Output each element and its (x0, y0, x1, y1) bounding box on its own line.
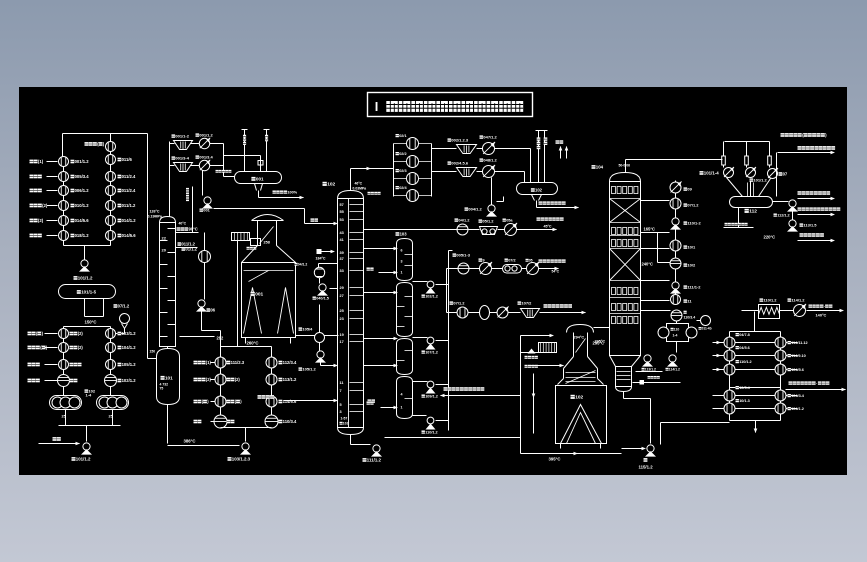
svg-text:001/3-4: 001/3-4 (175, 156, 189, 161)
svg-text:25: 25 (62, 415, 66, 419)
svg-text:114/1.2: 114/1.2 (791, 298, 805, 303)
svg-text:6: 6 (401, 249, 403, 253)
svg-text:107/2: 107/2 (521, 301, 532, 306)
svg-text:113/1.5: 113/1.5 (803, 223, 817, 228)
svg-text:3: 3 (401, 260, 403, 264)
svg-text:0.03MPa: 0.03MPa (353, 187, 367, 191)
svg-text:1-57: 1-57 (341, 417, 348, 421)
svg-text:111/1.2: 111/1.2 (367, 458, 382, 463)
svg-text:07: 07 (783, 172, 788, 177)
svg-text:07/1.2: 07/1.2 (118, 304, 130, 309)
svg-text:10/1: 10/1 (687, 245, 696, 250)
svg-text:102: 102 (575, 395, 583, 401)
svg-text:105/1.2: 105/1.2 (122, 362, 137, 367)
svg-text:110: 110 (674, 328, 680, 332)
svg-text:004/1.2: 004/1.2 (468, 207, 482, 212)
svg-text:011/1.2: 011/1.2 (122, 203, 136, 208)
svg-text:1-4: 1-4 (673, 334, 678, 338)
svg-text:25: 25 (109, 415, 113, 419)
svg-text:05a: 05a (506, 219, 513, 223)
svg-text:1: 1 (401, 406, 403, 410)
svg-text:04/5.6: 04/5.6 (739, 346, 750, 350)
svg-text:1-4: 1-4 (86, 393, 93, 398)
svg-text:002/1.2.3: 002/1.2.3 (451, 138, 468, 143)
svg-text:112/1.2: 112/1.2 (777, 214, 789, 218)
svg-text:57: 57 (340, 203, 344, 207)
svg-text:001: 001 (255, 292, 263, 298)
svg-text:105/4: 105/4 (302, 327, 313, 332)
svg-text:17: 17 (340, 340, 344, 344)
svg-text:040/1.5: 040/1.5 (316, 297, 329, 301)
svg-text:10/1.3: 10/1.3 (739, 399, 750, 403)
svg-text:05: 05 (529, 259, 533, 263)
svg-text:010/1.2: 010/1.2 (75, 203, 90, 208)
svg-text:23: 23 (340, 317, 344, 321)
svg-text:048/1.2: 048/1.2 (483, 158, 497, 163)
svg-text:011/6: 011/6 (122, 157, 133, 162)
svg-text:258: 258 (264, 241, 270, 245)
svg-text:4: 4 (401, 393, 403, 397)
svg-text:001/1-2: 001/1-2 (175, 134, 189, 139)
svg-text:110/3.4: 110/3.4 (283, 419, 297, 424)
svg-text:101/1-4: 101/1-4 (704, 171, 719, 176)
svg-text:005/3.4: 005/3.4 (75, 174, 90, 179)
svg-text:50·0.06: 50·0.06 (619, 164, 631, 168)
svg-text:10/5.4: 10/5.4 (739, 386, 750, 390)
svg-text:05/1.2: 05/1.2 (482, 219, 494, 224)
svg-text:55: 55 (340, 210, 344, 214)
svg-text:103/1.2: 103/1.2 (122, 331, 137, 336)
svg-text:104/5.6: 104/5.6 (791, 368, 804, 372)
svg-text:45°C: 45°C (544, 225, 552, 229)
svg-text:260°C: 260°C (247, 341, 259, 346)
svg-text:150: 150 (150, 350, 156, 354)
svg-text:294°C: 294°C (574, 336, 585, 340)
svg-text:102: 102 (343, 422, 349, 426)
svg-text:(2): (2) (78, 331, 84, 336)
svg-text:102/1.2: 102/1.2 (425, 295, 438, 299)
svg-text:006/1.2: 006/1.2 (75, 188, 90, 193)
svg-text:102: 102 (327, 182, 335, 188)
svg-text:001/3.4: 001/3.4 (199, 155, 213, 160)
svg-text:02/3: 02/3 (399, 169, 406, 173)
svg-text:40°C: 40°C (179, 222, 187, 226)
svg-text:011/2.4: 011/2.4 (122, 188, 136, 193)
svg-text:102/1.2: 102/1.2 (122, 378, 137, 383)
svg-text:002/4.5.6: 002/4.5.6 (451, 161, 468, 166)
svg-text:37: 37 (340, 257, 344, 261)
svg-text:06: 06 (211, 308, 216, 313)
svg-text:104/3.4: 104/3.4 (791, 394, 805, 398)
svg-text:014/5.6: 014/5.6 (122, 233, 137, 238)
svg-text:11: 11 (340, 381, 344, 385)
svg-text:018/1.2: 018/1.2 (75, 233, 90, 238)
svg-text:240°C: 240°C (642, 262, 653, 267)
svg-text:014/5.6: 014/5.6 (75, 218, 90, 223)
svg-text:001: 001 (256, 177, 264, 182)
svg-text:001/1.2: 001/1.2 (75, 159, 90, 164)
svg-text:29: 29 (340, 286, 344, 290)
svg-text:(2): (2) (235, 377, 241, 382)
svg-text:02/1: 02/1 (399, 134, 406, 138)
svg-text:7: 7 (340, 389, 342, 393)
svg-text:10/2: 10/2 (687, 263, 696, 268)
svg-text:101: 101 (165, 376, 173, 381)
svg-text:·: · (816, 381, 817, 386)
svg-text:103: 103 (400, 232, 408, 237)
svg-text:014/1.2: 014/1.2 (122, 218, 137, 223)
svg-text:110/3.4: 110/3.4 (684, 316, 696, 320)
svg-text:20: 20 (162, 248, 167, 253)
svg-text:105/1.2: 105/1.2 (302, 367, 316, 372)
svg-text:27: 27 (340, 294, 344, 298)
svg-text:3: 3 (340, 410, 342, 414)
svg-text:150°C: 150°C (85, 320, 97, 325)
svg-text:09: 09 (687, 187, 692, 192)
svg-text:39: 39 (340, 251, 344, 255)
svg-text:100%: 100% (287, 191, 297, 195)
svg-text:111/2.3: 111/2.3 (231, 360, 245, 365)
svg-text:(2): (2) (78, 345, 84, 350)
svg-text:104/1.2: 104/1.2 (791, 407, 804, 411)
svg-text:386°C: 386°C (184, 439, 196, 444)
svg-text:04/1.2: 04/1.2 (458, 218, 470, 223)
svg-text:102: 102 (535, 188, 543, 193)
svg-text:101/1.2: 101/1.2 (78, 276, 93, 281)
svg-text:115/1.2: 115/1.2 (639, 465, 654, 470)
svg-text:25: 25 (340, 309, 344, 313)
svg-text:04/7.8: 04/7.8 (739, 333, 750, 337)
svg-text:02/2: 02/2 (399, 152, 406, 156)
svg-text:114/1.2: 114/1.2 (669, 368, 680, 372)
svg-text:33: 33 (340, 269, 344, 273)
svg-text:126°C: 126°C (150, 210, 160, 214)
svg-text:395°C: 395°C (549, 457, 561, 462)
svg-text:112/3.4: 112/3.4 (283, 360, 297, 365)
svg-text:295°C: 295°C (595, 340, 606, 344)
svg-text:(2): (2) (38, 218, 44, 223)
svg-text:02/4: 02/4 (399, 186, 407, 190)
svg-text:011-4b: 011-4b (702, 327, 712, 331)
svg-text:5: 5 (340, 403, 342, 407)
svg-text:114/11.12: 114/11.12 (791, 341, 807, 345)
svg-text:112: 112 (749, 209, 757, 215)
svg-text:I: I (375, 99, 379, 114)
svg-text:19: 19 (340, 333, 344, 337)
svg-text:54°C: 54°C (552, 270, 560, 274)
svg-text:41: 41 (340, 238, 344, 242)
svg-text:104/1.2: 104/1.2 (122, 345, 137, 350)
svg-text:011/2.4: 011/2.4 (122, 174, 136, 179)
svg-text:103/1.2.3: 103/1.2.3 (232, 457, 251, 462)
svg-text:75: 75 (160, 387, 164, 391)
svg-text:07/2: 07/2 (508, 259, 515, 263)
svg-text:110/1.2: 110/1.2 (739, 360, 751, 364)
svg-text:184°C: 184°C (316, 257, 326, 261)
svg-text:22: 22 (162, 236, 167, 241)
svg-text:43: 43 (340, 231, 344, 235)
svg-text:107/1.2: 107/1.2 (425, 351, 438, 355)
svg-text:101/1-5: 101/1-5 (81, 290, 96, 295)
svg-text:1: 1 (401, 271, 403, 275)
svg-text:114/5.6: 114/5.6 (283, 399, 297, 404)
svg-text:01/1.2: 01/1.2 (186, 247, 198, 252)
svg-text:101/1.2: 101/1.2 (76, 457, 91, 462)
svg-text:110/1-2: 110/1-2 (687, 221, 701, 226)
svg-text:(1): (1) (38, 159, 44, 164)
svg-text:165°C: 165°C (644, 227, 655, 232)
svg-text:005/1-3: 005/1-3 (456, 253, 470, 258)
svg-text:113/1.2: 113/1.2 (283, 377, 297, 382)
svg-text:001/1.2: 001/1.2 (199, 133, 213, 138)
svg-text:110/1.2: 110/1.2 (425, 431, 437, 435)
svg-text:04/1.2: 04/1.2 (298, 263, 308, 267)
svg-text:104: 104 (596, 165, 604, 170)
svg-text:114/9.10: 114/9.10 (791, 354, 806, 358)
svg-text:047/1.2: 047/1.2 (483, 135, 497, 140)
svg-text:113/1.2: 113/1.2 (645, 368, 656, 372)
svg-text:53: 53 (340, 218, 344, 222)
svg-text:07/1.2: 07/1.2 (453, 301, 465, 306)
svg-text:0.19MPa: 0.19MPa (148, 215, 163, 219)
svg-text:101/1.2: 101/1.2 (753, 178, 767, 183)
svg-text:07/1.2: 07/1.2 (687, 203, 699, 208)
svg-text:109/1.2: 109/1.2 (425, 395, 438, 399)
svg-text:111/1-2: 111/1-2 (687, 285, 701, 290)
svg-text:90°C: 90°C (189, 227, 198, 232)
svg-text:110/1.2: 110/1.2 (763, 298, 777, 303)
svg-text:140°C: 140°C (816, 313, 827, 318)
svg-text:001: 001 (203, 208, 210, 213)
svg-text:220°C: 220°C (764, 235, 776, 240)
svg-text:46°C: 46°C (355, 182, 363, 186)
